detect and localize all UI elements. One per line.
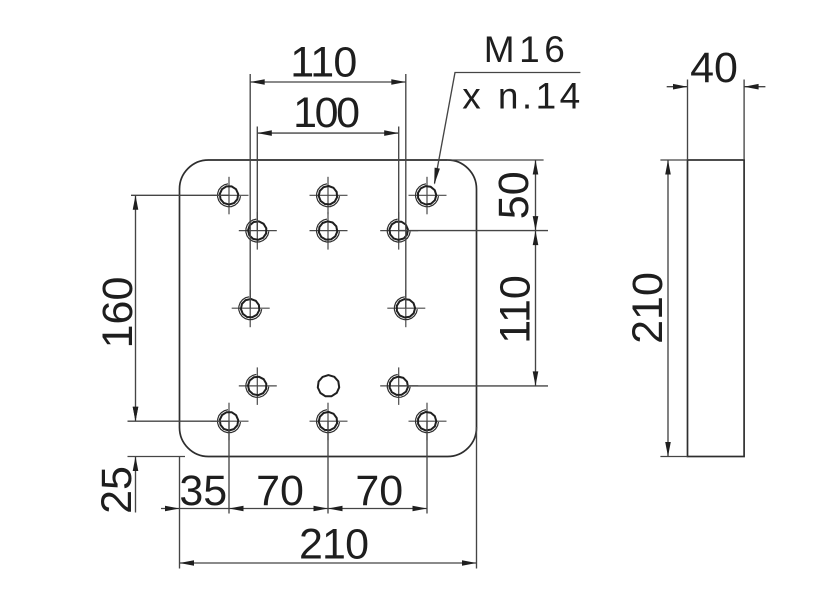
svg-text:110: 110: [290, 38, 357, 86]
svg-text:x n.14: x n.14: [462, 76, 580, 117]
M16 threaded hole C1 (circle + thread arc + centerlines): [232, 290, 270, 327]
dimension 100 line: [257, 132, 398, 134]
extension line, hole B3 row extended right: [399, 230, 548, 232]
M16 threaded hole A1 (circle + thread arc + centerlines): [211, 177, 249, 215]
extension line, hole E1 row extended left: [128, 420, 230, 422]
svg-text:M16: M16: [484, 29, 565, 70]
M16 threaded hole B3 (circle + thread arc + centerlines): [380, 212, 418, 250]
extension line, hole A1 row extended left: [131, 194, 229, 196]
extension line, hole C1 column (for dim 110): [249, 74, 251, 308]
svg-text:70: 70: [256, 467, 304, 515]
dimension 100 left arrow: [257, 130, 272, 136]
dimension 110 (top, hole spacing) line: [250, 81, 406, 83]
M16 threaded hole B2 (circle + thread arc + centerlines): [310, 212, 348, 250]
dim 35 left arrow (outside): [165, 506, 180, 512]
dim 40 right arrow (outside): [744, 84, 759, 90]
dimension 50 (right) line: [535, 160, 537, 231]
dim 210 right arrow: [462, 560, 477, 566]
dim 210 side top arrow: [665, 160, 671, 175]
extension line, hole D3 row extended right: [399, 385, 548, 387]
svg-text:100: 100: [293, 89, 360, 137]
dimension 160 (left) line: [135, 195, 137, 421]
dim 210 left arrow: [180, 560, 195, 566]
extension line, plate bottom edge extended left (for dim 25): [128, 456, 186, 458]
extension line, hole C2 column (for dim 110): [405, 74, 407, 308]
leader line to hole A3 (M16 callout): [435, 73, 581, 184]
plate side view outline (40 thick): [688, 160, 745, 457]
dimension 40 right tail: [744, 86, 765, 88]
dimension 40 left tail: [667, 86, 688, 88]
M16 threaded hole A3 (circle + thread arc + centerlines): [409, 177, 447, 215]
dimension 160 top arrow: [133, 195, 139, 210]
extension line, plate left edge extended down (for dims 35 and 210): [179, 457, 181, 569]
extension line, side view left edge up (for dim 40): [687, 80, 689, 161]
dim 35/70 shared arrow at first hole column: [229, 506, 244, 512]
dimension 50 bottom arrow: [533, 216, 539, 231]
svg-text:40: 40: [690, 44, 738, 92]
svg-text:210: 210: [624, 272, 672, 344]
svg-text:210: 210: [299, 521, 369, 569]
dimension 210 (side) line: [667, 160, 669, 457]
extension line, plate top edge extended right (for dim 50): [447, 159, 544, 161]
M16 threaded hole E3 (circle + thread arc + centerlines): [409, 403, 447, 441]
M16 threaded hole A2 (circle + thread arc + centerlines): [310, 177, 348, 215]
extension line, hole column E3 extended down: [426, 421, 428, 513]
M16 threaded hole D3 (circle + thread arc + centerlines): [380, 367, 418, 405]
dim 40 left arrow (outside): [673, 84, 688, 90]
M16 threaded hole D1 (circle + thread arc + centerlines): [239, 367, 277, 405]
extension line, hole column E1 extended down: [228, 421, 230, 513]
M16 threaded hole E2 (circle + thread arc + centerlines): [310, 403, 348, 441]
dimension 25 upper outside arrow: [133, 407, 139, 422]
dimension 110 left arrow: [250, 79, 265, 85]
M16 threaded hole C2 (circle + thread arc + centerlines): [387, 290, 425, 327]
dim 210 side bottom arrow: [665, 442, 671, 457]
dimension 110 right-side top arrow: [533, 231, 539, 246]
svg-text:70: 70: [355, 467, 403, 515]
leader arrowhead at hole A3: [434, 168, 440, 185]
dimension 160 bottom arrow: [133, 407, 139, 422]
dimension 100 right arrow: [384, 130, 399, 136]
dim 70/70 arrow pair right: [328, 506, 343, 512]
extension line, plate right edge extended down (for dim 210): [476, 427, 478, 569]
M16 threaded hole B1 (circle + thread arc + centerlines): [239, 212, 277, 250]
dim 70 right arrow: [413, 506, 428, 512]
extension line, hole B3 column (for dim 100): [398, 127, 400, 231]
svg-text:110: 110: [492, 275, 540, 344]
dim 70/70 arrow pair left: [314, 506, 329, 512]
svg-text:25: 25: [93, 466, 141, 514]
dimension 25 lower arrowhead: [133, 457, 139, 472]
dimension 50 top arrow: [533, 160, 539, 175]
extension line, side view bottom edge extended left: [660, 456, 687, 458]
plate front view outline (210x210 rounded square): [180, 160, 477, 457]
chained dimension line 35 / 70 / 70: [161, 508, 427, 510]
svg-text:50: 50: [490, 171, 538, 219]
extension line, side view right edge up (for dim 40): [743, 80, 745, 161]
M16 threaded hole E1 (circle + thread arc + centerlines): [211, 403, 249, 441]
dimension 110 (right) line: [535, 231, 537, 386]
extension line, side view top edge extended left (for dim 210): [660, 159, 687, 161]
dimension 25 lower outside arrow + tail: [135, 457, 137, 513]
dimension 210 (bottom) line: [180, 562, 477, 564]
extension line, hole B1 column (for dim 100): [256, 127, 258, 231]
extension line, hole column E2 extended down: [327, 421, 329, 513]
dimension 110 right arrow: [391, 79, 406, 85]
plain hole (center of row D, no centerlines): [318, 375, 339, 396]
dimension 110 right-side bottom arrow: [533, 371, 539, 386]
svg-text:35: 35: [179, 467, 227, 515]
svg-text:160: 160: [94, 277, 142, 349]
